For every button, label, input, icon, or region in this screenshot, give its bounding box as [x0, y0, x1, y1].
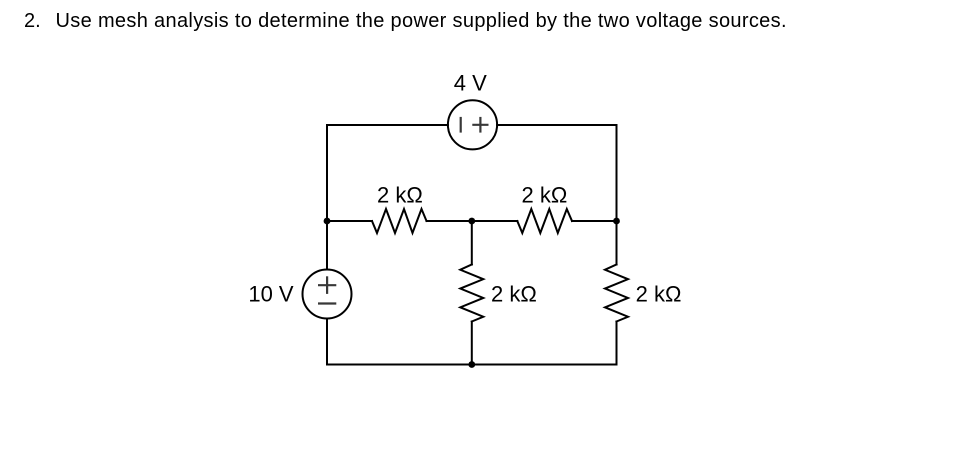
wire: right side upper (top-right corner to resistor R4)	[616, 125, 618, 265]
voltage source V1 (10 V) circle	[303, 270, 352, 319]
svg-text:2 kΩ: 2 kΩ	[377, 182, 423, 207]
wire: middle row, R1 to center node C	[427, 220, 472, 222]
V1 plus terminal mark (top inside circle)	[318, 284, 336, 286]
wire: top side left segment (node A to 4V source)	[327, 124, 448, 126]
junction dot node E (bottom middle)	[468, 361, 475, 368]
resistor R4 zigzag (right vertical 2 kOhm)	[605, 265, 628, 322]
wire: left side lower (10V source to bottom-left corner)	[326, 319, 328, 365]
wire: middle row, node B to resistor R1	[327, 220, 372, 222]
V1 minus terminal mark (bottom inside circle)	[318, 302, 336, 304]
svg-text:2 kΩ: 2 kΩ	[491, 282, 537, 307]
wire: middle vertical lower (R3 to bottom node E)	[471, 322, 473, 365]
resistor R2 zigzag (right horizontal 2 kOhm)	[517, 209, 572, 233]
wire: middle row, R2 to node D	[572, 220, 617, 222]
resistor R1 zigzag (left horizontal 2 kOhm)	[372, 209, 427, 233]
svg-text:2 kΩ: 2 kΩ	[522, 182, 568, 207]
wire: middle vertical upper (node C to resistor R3)	[471, 221, 473, 265]
wire: bottom side	[327, 364, 617, 366]
junction dot node C (center, mid row)	[468, 218, 475, 225]
svg-text:10 V: 10 V	[248, 282, 294, 307]
resistor R3 zigzag (middle vertical 2 kOhm)	[460, 265, 483, 322]
svg-text:4 V: 4 V	[454, 71, 487, 96]
junction dot node D (right, mid row)	[613, 218, 620, 225]
V2 plus terminal mark (right inside circle)	[472, 124, 488, 126]
wire: right side lower (R4 to bottom-right corner)	[616, 322, 618, 365]
wire: left side upper (top-left corner down to 10V source)	[326, 125, 328, 270]
problem statement text	[24, 11, 787, 31]
wire: top side right segment (4V source to node D)	[497, 124, 616, 126]
V2 minus terminal mark (vertical bar, left inside circle)	[460, 117, 462, 133]
voltage source V2 (4 V) circle	[448, 100, 497, 149]
svg-text:2 kΩ: 2 kΩ	[636, 282, 682, 307]
junction dot node B (left, mid row)	[324, 218, 331, 225]
wire: middle row, node C to resistor R2	[472, 220, 518, 222]
